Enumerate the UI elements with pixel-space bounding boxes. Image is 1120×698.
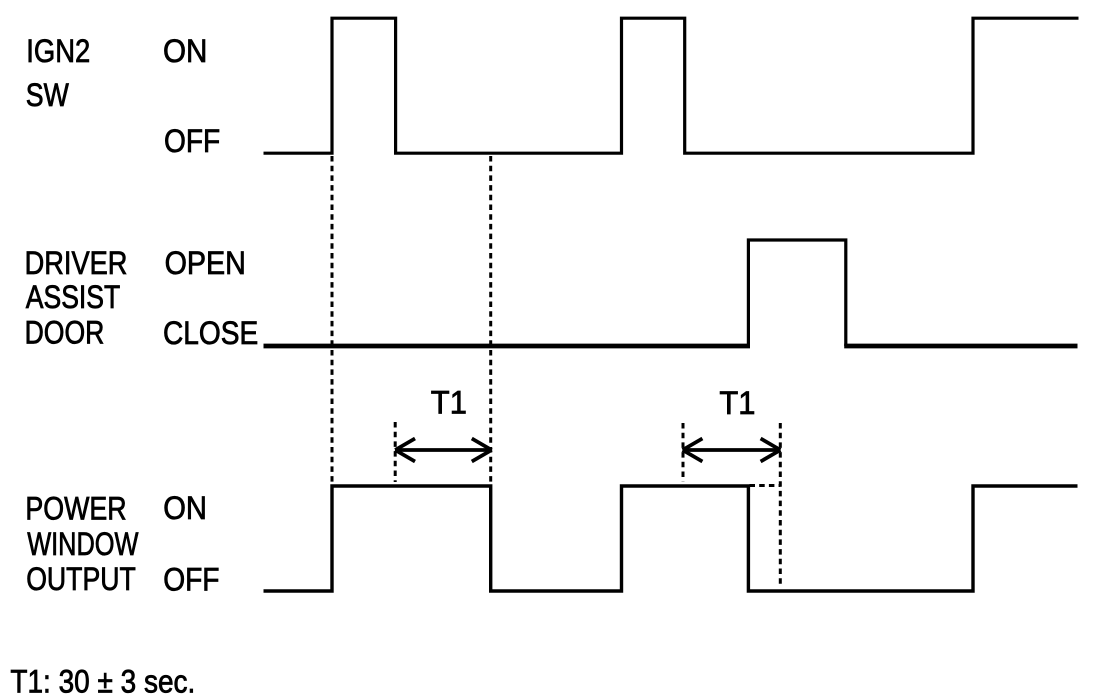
svg-text:ON: ON: [163, 32, 207, 69]
wire: DOOR CLOSE baseline right segment (thick): [844, 344, 1077, 349]
svg-text:OFF: OFF: [164, 122, 220, 159]
dashed horizontal continuation of power window ON level: [750, 484, 781, 487]
svg-text:IGN2: IGN2: [26, 32, 90, 69]
svg-text:DOOR: DOOR: [25, 314, 105, 351]
signal trace: DRIVER/ASSIST DOOR open pulse: [748, 240, 845, 346]
dashed reference line at first IGN2 rising edge: [331, 156, 334, 484]
svg-text:CLOSE: CLOSE: [163, 314, 258, 351]
dashed tick at first IGN2 falling edge (T1 start): [394, 422, 397, 482]
svg-text:OFF: OFF: [163, 561, 219, 598]
svg-text:OUTPUT: OUTPUT: [26, 560, 136, 597]
svg-text:ASSIST: ASSIST: [26, 278, 120, 315]
wire: DOOR CLOSE baseline left segment (thick): [264, 344, 751, 349]
dashed reference line at first power window falling edge: [489, 156, 492, 484]
svg-text:T1: T1: [719, 384, 755, 421]
svg-text:T1: 30 ± 3 sec.: T1: 30 ± 3 sec.: [10, 663, 195, 698]
arrow: second T1 duration: [683, 439, 781, 462]
svg-text:WINDOW: WINDOW: [27, 525, 138, 562]
dashed reference line at expected T1 end: [779, 423, 782, 587]
signal trace: POWER WINDOW OUTPUT waveform: [264, 486, 1078, 591]
arrow: first T1 duration: [395, 439, 491, 462]
svg-text:OPEN: OPEN: [165, 244, 246, 281]
svg-text:SW: SW: [26, 76, 69, 113]
svg-text:POWER: POWER: [25, 490, 126, 527]
dashed tick at second IGN2 falling edge (T1 start): [682, 423, 685, 482]
signal trace: IGN2 SW waveform: [264, 18, 1079, 153]
svg-text:ON: ON: [163, 489, 207, 526]
svg-text:T1: T1: [431, 384, 467, 421]
svg-text:DRIVER: DRIVER: [25, 244, 128, 281]
